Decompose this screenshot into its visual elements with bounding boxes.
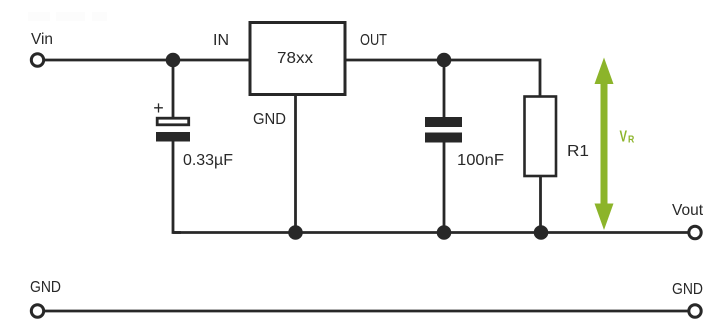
terminal GND right [689,305,701,317]
svg-text:V: V [620,129,628,146]
junction node C2 / rail [437,225,452,240]
svg-text:GND: GND [30,279,61,296]
wire node B to R1 top [444,60,540,96]
ground rail [45,310,688,313]
svg-text:Vout: Vout [672,202,704,219]
wire C1 bottom to ground rail [173,141,181,233]
wire C2 bottom to rail [443,142,446,233]
label VR [620,129,635,146]
svg-text:100nF: 100nF [457,152,504,169]
junction node A [166,53,181,68]
svg-text:OUT: OUT [360,32,387,49]
wire GND pin to rail [294,94,297,233]
svg-text:+: + [153,98,164,118]
resistor R1 [525,97,557,177]
wire output rail to Vout [173,231,688,234]
wire Vin to node A [45,59,173,62]
svg-text:GND: GND [253,111,286,128]
svg-text:IN: IN [213,32,229,49]
regulator U1 78xx [250,23,345,95]
terminal Vin [31,54,43,66]
svg-text:0.33µF: 0.33µF [183,152,233,169]
capacitor C1 0.33uF (polarized) [156,118,190,141]
terminal Vout [689,226,701,238]
junction node R1 / rail [534,225,549,240]
svg-text:Vin: Vin [31,31,53,48]
junction node B [437,53,452,68]
arrow VR (output voltage indicator) [595,58,614,231]
svg-text:R: R [628,134,635,146]
wire C1 top: node A down to capacitor [172,60,175,118]
terminal GND left [31,305,43,317]
svg-text:78xx: 78xx [277,50,313,67]
svg-text:GND: GND [672,281,703,298]
junction node GND stem / rail [288,225,303,240]
capacitor C2 100nF [425,117,462,143]
wire C2 top: node B down to capacitor [443,60,446,118]
wire OUT pin to node B [345,59,444,62]
wire node A to IN pin [173,59,249,62]
svg-text:R1: R1 [567,143,589,160]
wire R1 bottom to rail [539,176,542,233]
